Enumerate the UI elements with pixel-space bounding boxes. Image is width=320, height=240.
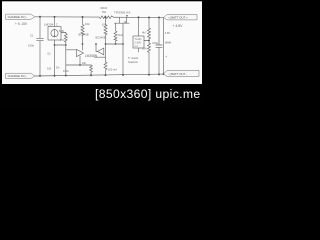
resistor R7 <box>148 28 151 43</box>
transistor Q3 TIP2955 <box>119 17 121 23</box>
svg-text:10k: 10k <box>85 22 90 26</box>
wire emitter bus <box>66 64 91 66</box>
wire base feed Q1 <box>65 45 67 76</box>
node BATT - flag <box>164 70 200 76</box>
resistor R4 collector load Q2 <box>104 17 107 44</box>
component value labels <box>28 6 171 73</box>
comparator tip B <box>98 48 104 55</box>
svg-text:4k7: 4k7 <box>142 30 147 34</box>
svg-text:+: + <box>165 55 167 59</box>
svg-text:10k: 10k <box>102 22 107 26</box>
wire base node to rail <box>122 44 124 75</box>
resistor R3 collector load Q1 <box>81 17 84 44</box>
svg-text:NiMH: NiMH <box>165 41 172 45</box>
resistor R8 <box>148 43 151 75</box>
wire tap to tip B <box>96 44 98 52</box>
svg-text:◁ BATT OUT +: ◁ BATT OUT + <box>168 16 188 20</box>
svg-text:heatsink: heatsink <box>128 60 138 64</box>
reference U2 TL431 box <box>133 36 144 48</box>
wire TL431 drop <box>138 17 140 36</box>
wire input cap branch <box>39 17 41 38</box>
svg-text:100 mA: 100 mA <box>108 68 117 72</box>
wire battery sense <box>163 18 165 75</box>
wire output cap branch <box>158 18 160 45</box>
node BATT + flag <box>164 15 198 20</box>
svg-text:LM334: LM334 <box>44 23 54 27</box>
svg-text:BC546B: BC546B <box>79 32 89 36</box>
svg-text:TIP2955 HS: TIP2955 HS <box>114 10 130 14</box>
capacitor C2 <box>156 44 162 46</box>
svg-text:100n: 100n <box>28 44 35 48</box>
schematic white canvas <box>2 1 202 84</box>
wire lower link <box>95 56 106 58</box>
svg-text:CHARGE IN ▷: CHARGE IN ▷ <box>8 15 28 19</box>
current source U1 LM334 <box>48 27 61 41</box>
wire tipA bottom drop <box>79 56 81 65</box>
svg-text:+ 9..15V: + 9..15V <box>15 22 28 26</box>
wire LM334 top pin <box>54 17 56 27</box>
comparator tip A <box>77 49 84 56</box>
capacitor C1 <box>37 37 44 39</box>
svg-text:10k: 10k <box>82 61 87 65</box>
svg-text:100n: 100n <box>63 69 69 73</box>
wire tap to TL431 <box>144 40 149 42</box>
resistor R1 current sense <box>99 16 114 19</box>
svg-text:4.8V: 4.8V <box>165 31 171 35</box>
svg-text:ref: ref <box>135 45 138 48</box>
svg-text:10k: 10k <box>142 46 147 50</box>
wire Q2 emitter <box>105 44 107 62</box>
wire top rail <box>35 16 99 18</box>
svg-text:68R: 68R <box>59 29 64 33</box>
node CHARGE IN - flag <box>6 73 35 78</box>
resistor R5 emitter Q2 <box>104 62 107 75</box>
wire base line to Q3 <box>106 23 124 44</box>
svg-text:◁ BATT OUT -: ◁ BATT OUT - <box>168 72 187 76</box>
resistor R6 base-emitter <box>114 23 117 44</box>
junction dots <box>39 15 165 77</box>
wire divider drop <box>148 18 150 29</box>
resistor Rset <box>64 33 67 46</box>
svg-text:TL431: TL431 <box>135 38 143 41</box>
wire LM334 V- node <box>55 40 66 45</box>
svg-text:BC546B: BC546B <box>96 35 106 39</box>
black frame background <box>0 0 204 106</box>
svg-text:+ 4.8V: + 4.8V <box>173 24 184 28</box>
svg-text:5W: 5W <box>102 10 107 14</box>
wire base feed <box>66 49 77 51</box>
wire R3 to comparator tip A <box>82 44 84 50</box>
wire LM334 drop to rail <box>54 45 56 76</box>
svg-text:LM358N: LM358N <box>85 54 98 58</box>
svg-text:[850x360] upic.me: [850x360] upic.me <box>95 87 201 101</box>
resistor R9 <box>90 65 93 75</box>
svg-text:1k0: 1k0 <box>118 33 123 37</box>
svg-text:100: 100 <box>47 68 52 71</box>
svg-text:CHARGE IN ▷: CHARGE IN ▷ <box>8 74 28 78</box>
node CHARGE IN + flag <box>6 14 35 19</box>
wire bottom rail <box>35 74 164 76</box>
svg-text:2.50V: 2.50V <box>135 41 142 44</box>
svg-text:Tr needs: Tr needs <box>128 56 139 60</box>
svg-text:C1: C1 <box>30 34 34 38</box>
wire LM334 R pin <box>61 32 66 34</box>
svg-text:470µ: 470µ <box>152 41 159 45</box>
